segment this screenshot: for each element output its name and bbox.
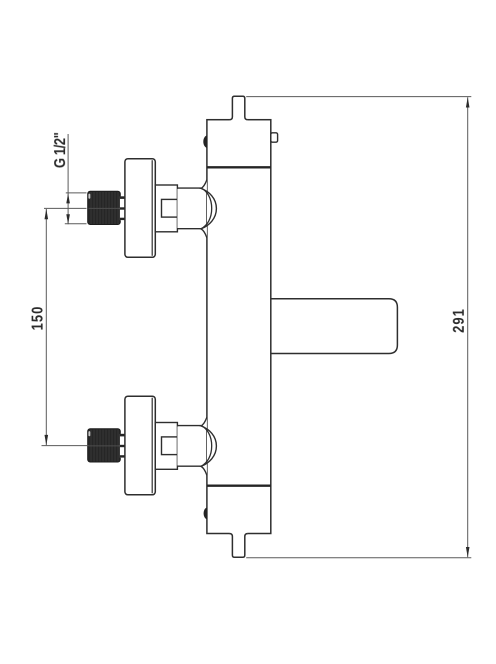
dimension line 291 [467,97,469,557]
svg-text:291: 291 [451,308,468,333]
top cap separation line [207,166,271,168]
extension line G1/2 bottom [65,223,87,225]
arrow up 291 [466,97,470,107]
arrow up G1/2 [66,193,70,203]
svg-text:G 1/2": G 1/2" [52,133,69,169]
extension line 150 top (upper nipple centre) [44,207,87,209]
arrow down 291 [466,547,470,557]
arrow down G1/2 [66,214,70,224]
bottom cap separation line [207,485,271,487]
spout [271,299,398,354]
side screw on top cap [271,133,278,142]
extension line bottom (from tab to 291 dim) [246,557,471,559]
top mounting tab [229,96,247,121]
extension line top (from tab to 291 dim) [246,96,471,98]
arrow up 150 [45,209,49,219]
lower inlet assembly [88,396,217,495]
dimension line G1/2 [67,134,69,224]
extension line G1/2 top [66,192,87,194]
mixer body [207,120,271,534]
upper inlet assembly [88,159,217,258]
bottom mounting tab [229,532,247,558]
extension line 150 bottom (lower nipple centre) [42,445,89,447]
arrow down 150 [45,435,49,445]
svg-text:150: 150 [30,306,47,331]
screw knob on left edge of top cap [203,135,207,148]
screw knob on left edge of bottom cap [204,507,207,519]
dimension line 150 [45,209,47,445]
